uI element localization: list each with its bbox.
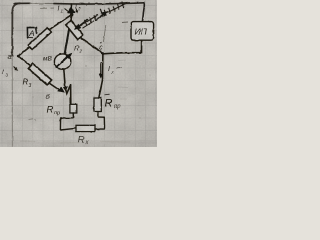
node c (junction dot) with label с: [102, 52, 105, 55]
wire: Rx to right Rпр bottom (step): [95, 112, 105, 130]
current label I2 with arrow (right of riser): [75, 4, 81, 12]
scan texture overlays: [0, 0, 157, 147]
wire: R1 to node T: [50, 15, 72, 30]
slide wire hatched segment A: [81, 15, 99, 29]
wire: node T into resistor R2: [70, 15, 71, 23]
current label I3 with arrow: [2, 69, 9, 78]
wiper arrow onto R2: [79, 19, 88, 26]
label Rx: [78, 135, 90, 146]
paper: [0, 0, 157, 147]
faint dash-dot marks under top bus: [40, 7, 55, 9]
wire: R2 to node c: [81, 38, 103, 54]
label Rпр (right): [105, 94, 122, 110]
wire: node b junction down to left Rпр: [70, 85, 72, 105]
instrument ИП box: [131, 22, 154, 41]
node T (top vertex of bridge): [70, 13, 73, 16]
notebook margin line (dark above, faint below): [12, 3, 20, 56]
label R3: [23, 78, 32, 90]
wire: node c down to right Rпр: [99, 54, 103, 98]
wire: node T to galvanometer with up arrow: [65, 15, 72, 54]
galvanometer (мВ meter): [54, 54, 70, 69]
wire: galvanometer to node b (zigzag): [64, 69, 66, 88]
resistor R2 (upper-right arm, diagonal box): [66, 20, 83, 39]
resistor Rпр (left, vertical box): [70, 104, 77, 113]
wiper stem to node c: [103, 25, 105, 43]
node a with label а: [17, 55, 20, 58]
wire: node a to resistor R3: [18, 56, 31, 66]
resistor Rпр (right, vertical box): [94, 98, 101, 112]
wire: riser from node T to top bus: [70, 4, 72, 15]
resistor Rx (bottom horizontal box): [76, 125, 95, 131]
resistor R1 (left bridge arm, diagonal box): [28, 28, 51, 50]
wire: R3 to node b with arrowhead: [49, 83, 59, 90]
current label I1 with arrow (left of riser): [58, 6, 64, 14]
wire: top bus from margin corner to ИП drop: [14, 2, 30, 4]
wire: left Rпр bottom to Rx (step): [60, 113, 76, 130]
label R2: [74, 46, 83, 54]
label Rпр (left): [47, 105, 61, 117]
wire: node c to ИП (horizontal + vertical from box bottom): [103, 40, 142, 54]
slide wire hatched segment B: [100, 2, 127, 17]
current label Ix with down arrow: [100, 62, 102, 75]
label box R1 (boxed А): [27, 27, 36, 38]
wiper arrow of slide wire: [96, 14, 104, 20]
resistor R3 (lower-left bridge arm, diagonal box): [28, 64, 51, 85]
wire: node a to resistor R1: [18, 47, 30, 56]
